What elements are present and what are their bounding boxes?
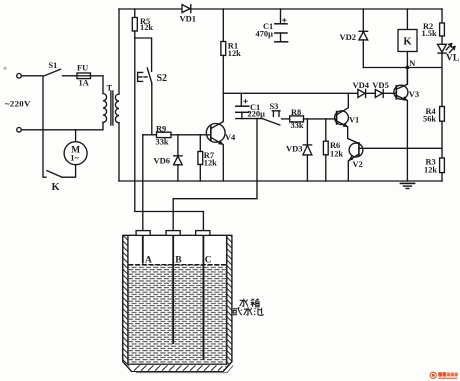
- svg-text:VL: VL: [446, 53, 459, 63]
- svg-text:B: B: [175, 256, 182, 266]
- svg-text:VD2: VD2: [340, 32, 357, 42]
- svg-text:1~: 1~: [70, 152, 79, 162]
- svg-text:V2: V2: [353, 160, 363, 169]
- svg-text:56k: 56k: [423, 114, 436, 123]
- svg-text:~220V: ~220V: [5, 99, 31, 109]
- svg-text:S2: S2: [157, 73, 168, 84]
- svg-text:1A: 1A: [79, 79, 89, 88]
- svg-text:S1: S1: [49, 61, 58, 70]
- svg-text:12k: 12k: [228, 49, 241, 58]
- svg-text:V4: V4: [225, 133, 236, 142]
- svg-text:12k: 12k: [330, 150, 343, 159]
- svg-text:33k: 33k: [291, 121, 304, 130]
- svg-text:C: C: [205, 256, 212, 266]
- svg-text:FU: FU: [77, 63, 88, 72]
- svg-text:VD4: VD4: [353, 80, 370, 90]
- svg-text:V1: V1: [349, 115, 359, 124]
- svg-text:R9: R9: [156, 125, 166, 134]
- svg-text:VD6: VD6: [154, 156, 171, 166]
- svg-text:N: N: [409, 59, 415, 68]
- svg-text:33k: 33k: [156, 137, 169, 146]
- svg-text:T: T: [107, 83, 113, 92]
- svg-text:K: K: [403, 37, 412, 48]
- svg-text:VD5: VD5: [372, 80, 389, 90]
- svg-text:VD1: VD1: [180, 14, 197, 24]
- svg-text:12k: 12k: [140, 23, 153, 32]
- svg-text:V3: V3: [409, 90, 419, 99]
- svg-text:12k: 12k: [204, 159, 217, 168]
- svg-text:A: A: [145, 255, 152, 265]
- svg-text:220μ: 220μ: [248, 110, 266, 119]
- svg-text:12k: 12k: [424, 165, 437, 174]
- svg-text:R8: R8: [291, 108, 301, 117]
- svg-text:470μ: 470μ: [256, 29, 274, 38]
- svg-text:1.5k: 1.5k: [422, 29, 437, 38]
- svg-text:VD3: VD3: [286, 144, 303, 154]
- svg-text:K: K: [52, 182, 61, 193]
- svg-text:S3: S3: [270, 102, 279, 111]
